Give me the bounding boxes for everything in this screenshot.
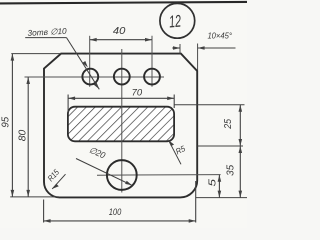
svg-text:25: 25	[223, 118, 234, 129]
svg-text:10×45°: 10×45°	[207, 31, 232, 41]
svg-text:12: 12	[168, 11, 182, 31]
dimension 70	[68, 95, 174, 113]
big circle horizontal centerline	[97, 174, 221, 177]
hole 1 (Ø10)	[82, 69, 98, 85]
hatched slot (rounded rectangle)	[68, 107, 174, 142]
svg-text:5: 5	[207, 178, 218, 186]
hole 3 vertical centerline / 40-dim extension	[151, 36, 153, 87]
svg-text:40: 40	[113, 26, 126, 37]
dimension 95	[10, 54, 61, 197]
right side dimension chain extension lines	[175, 105, 248, 198]
svg-text:80: 80	[18, 129, 29, 141]
plate outline	[44, 54, 197, 198]
leader R15 (bottom-left corner radius)	[52, 174, 65, 189]
position balloon circle 12	[160, 3, 195, 38]
hole 2 (Ø10)	[114, 69, 130, 85]
ext line slot top level	[175, 104, 245, 106]
hole 3 (Ø10)	[144, 69, 160, 85]
top sheet border line	[0, 2, 247, 4]
leader O20 (big circle)	[76, 159, 132, 186]
bottom edge extension to right	[196, 197, 247, 199]
ext line 25/35 junction	[197, 145, 243, 147]
svg-text:3отв ∅10: 3отв ∅10	[27, 26, 67, 38]
dimension 25 / 35 chain	[239, 105, 243, 198]
hole 2 / slot / big circle vertical centerline	[121, 49, 123, 193]
svg-text:100: 100	[109, 206, 122, 217]
leader R5 (slot corner radius)	[169, 140, 182, 164]
leader 3otv O10	[25, 38, 99, 90]
svg-text:95: 95	[1, 116, 12, 127]
big circle Ø20	[107, 160, 137, 190]
svg-text:70: 70	[132, 87, 143, 98]
dimension 80	[26, 77, 30, 197]
dimension 100	[44, 181, 196, 223]
dimension 40	[90, 38, 152, 42]
svg-text:35: 35	[225, 164, 236, 176]
holes horizontal centerline (also 80-dim extension)	[25, 76, 165, 78]
dimension 5	[218, 175, 222, 198]
hole 1 vertical centerline / 40-dim extension	[89, 36, 91, 87]
dimension 10x45 (chamfer)	[172, 44, 235, 71]
